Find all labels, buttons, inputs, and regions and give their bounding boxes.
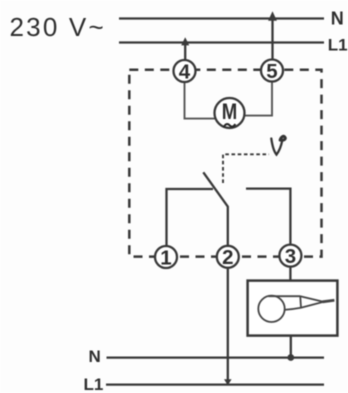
svg-text:5: 5 — [266, 60, 277, 83]
svg-text:N: N — [89, 347, 101, 366]
svg-text:3: 3 — [285, 245, 296, 268]
svg-text:M: M — [222, 99, 238, 124]
svg-text:4: 4 — [179, 60, 191, 83]
svg-text:L1: L1 — [84, 375, 104, 393]
svg-text:1: 1 — [160, 246, 171, 269]
svg-text:2: 2 — [222, 246, 233, 269]
svg-text:230 V~: 230 V~ — [10, 12, 106, 42]
svg-text:L1: L1 — [328, 36, 348, 55]
svg-text:N: N — [331, 8, 344, 28]
